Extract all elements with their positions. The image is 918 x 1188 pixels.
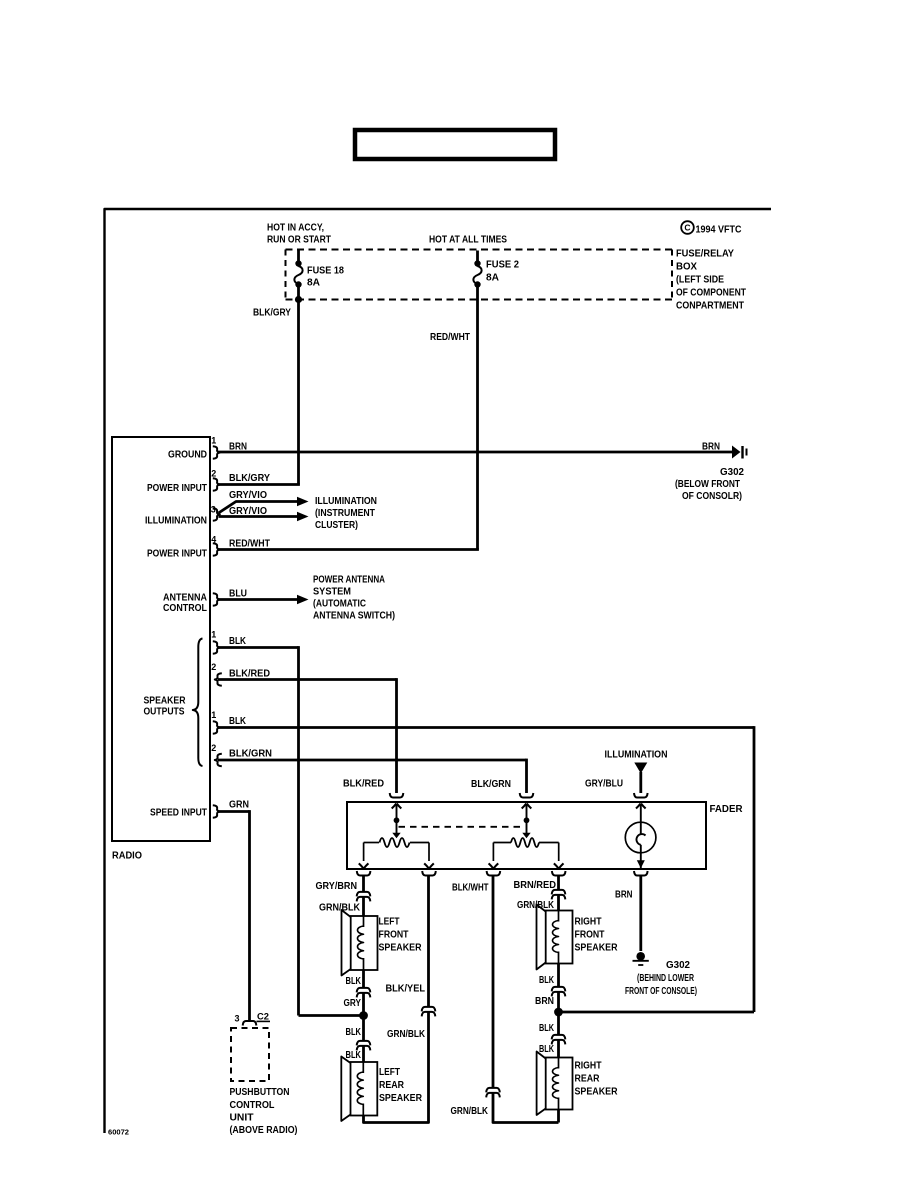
svg-text:FUSE/RELAY: FUSE/RELAY [676, 249, 734, 260]
svg-text:BLK/WHT: BLK/WHT [452, 883, 489, 894]
svg-text:2: 2 [211, 662, 216, 672]
svg-text:ILLUMINATION: ILLUMINATION [605, 750, 668, 761]
radio pin ANTENNA CONTROL with BLU arrow [213, 593, 220, 606]
svg-text:(INSTRUMENT: (INSTRUMENT [315, 508, 375, 519]
svg-text:UNIT: UNIT [230, 1113, 254, 1124]
wire BLK to left rear speaker [362, 1016, 365, 1063]
svg-text:G302: G302 [720, 467, 744, 478]
radio speaker pin 1 BLK [213, 641, 220, 654]
wire BLK below right front speaker [557, 964, 560, 1013]
svg-text:GRY/VIO: GRY/VIO [229, 490, 267, 501]
wire BLK to right rear speaker [557, 1012, 560, 1058]
svg-text:GRN/BLK: GRN/BLK [451, 1106, 489, 1117]
ground G302 below front of console [732, 446, 741, 459]
svg-text:ANTENNA: ANTENNA [163, 593, 207, 604]
svg-text:PUSHBUTTON: PUSHBUTTON [230, 1087, 290, 1098]
wire BLK radio to left-front junction [218, 646, 299, 649]
svg-text:G302: G302 [666, 960, 690, 971]
svg-text:BOX: BOX [676, 262, 697, 273]
inline connector BLK/WHT to GRN/BLK [491, 1088, 495, 1093]
right front speaker [546, 911, 573, 964]
fader input arrows [392, 804, 402, 809]
svg-text:C: C [684, 223, 690, 233]
svg-text:BRN: BRN [535, 996, 554, 1007]
svg-text:BLK: BLK [229, 636, 247, 647]
svg-text:REAR: REAR [379, 1080, 405, 1091]
fuse F2 8A [476, 251, 479, 263]
radio pin 1 GROUND [213, 446, 220, 459]
fader wiper dashed link [399, 826, 525, 828]
wire GRY/BRN fader to left front speaker [362, 876, 365, 917]
svg-text:(BEHIND LOWER: (BEHIND LOWER [637, 973, 695, 984]
svg-text:BLK: BLK [539, 1023, 555, 1034]
svg-text:RIGHT: RIGHT [575, 917, 602, 928]
junction fuse 18 output [297, 285, 300, 301]
wire BRN/RED fader to right front speaker [557, 876, 560, 911]
pushbutton unit connector pin 3 C2 [243, 1021, 257, 1026]
svg-text:1: 1 [211, 630, 216, 640]
svg-text:RIGHT: RIGHT [575, 1061, 602, 1072]
svg-text:LEFT: LEFT [379, 917, 400, 928]
svg-text:LEFT: LEFT [379, 1067, 400, 1078]
svg-text:ANTENNA SWITCH): ANTENNA SWITCH) [313, 611, 395, 622]
svg-text:BLU: BLU [229, 589, 247, 600]
svg-text:OUTPUTS: OUTPUTS [144, 707, 185, 718]
copyright symbol 1994 VFTC [681, 221, 694, 234]
svg-text:(BELOW FRONT: (BELOW FRONT [675, 479, 740, 490]
fader potentiometer right [526, 804, 528, 835]
svg-text:4: 4 [211, 535, 216, 545]
svg-text:POWER ANTENNA: POWER ANTENNA [313, 575, 385, 586]
fader output connector caps below box [357, 871, 371, 876]
svg-text:GRY/BLU: GRY/BLU [585, 779, 623, 790]
svg-text:CONTROL: CONTROL [163, 603, 207, 614]
svg-text:BLK: BLK [229, 716, 247, 727]
svg-text:SPEAKER: SPEAKER [379, 943, 423, 954]
fader illumination lamp [625, 822, 656, 853]
svg-text:1994 VFTC: 1994 VFTC [696, 225, 742, 236]
svg-text:GRN/BLK: GRN/BLK [387, 1029, 426, 1040]
inline connector GRY/BRN to GRN/BLK [361, 892, 365, 897]
radio speaker pin 2 BLK/RED [215, 673, 222, 686]
radio pin 3 ILLUMINATION with GRY/VIO arrows [213, 508, 220, 521]
svg-text:BLK: BLK [346, 976, 362, 987]
svg-text:FRONT OF CONSOLE): FRONT OF CONSOLE) [625, 986, 697, 997]
wire BRN fader lamp to ground G302 [639, 876, 642, 952]
svg-text:OF COMPONENT: OF COMPONENT [676, 288, 746, 299]
fader box [347, 802, 706, 869]
fader potentiometer left (balance) [396, 804, 398, 835]
svg-text:BLK/GRN: BLK/GRN [471, 779, 511, 790]
svg-text:(LEFT SIDE: (LEFT SIDE [676, 275, 724, 286]
svg-text:BLK/GRY: BLK/GRY [229, 473, 270, 484]
svg-text:RUN OR START: RUN OR START [267, 235, 331, 246]
wire BLK/WHT fader to right rear speaker [493, 876, 559, 1123]
wire left rear speaker bottom to GRN/BLK riser [364, 876, 429, 1123]
svg-text:(ABOVE RADIO): (ABOVE RADIO) [230, 1125, 298, 1136]
inline connector BLK to BLK [361, 1041, 365, 1046]
fader connector caps at box top [390, 793, 404, 798]
svg-text:HOT AT ALL TIMES: HOT AT ALL TIMES [429, 235, 507, 246]
ground G302 behind lower front of console [636, 952, 645, 961]
svg-text:BRN: BRN [615, 890, 633, 901]
junction right speakers [554, 1008, 563, 1017]
svg-text:BLK: BLK [539, 975, 555, 986]
svg-text:2: 2 [211, 469, 216, 479]
svg-text:GRN: GRN [229, 800, 249, 811]
wire GRN radio to pushbutton unit [218, 810, 250, 813]
title box (empty) [355, 130, 555, 159]
wire BLK below left front speaker [362, 970, 365, 1016]
right rear speaker [546, 1058, 573, 1110]
svg-text:SPEAKER: SPEAKER [379, 1093, 423, 1104]
wire BRN radio pin 1 to ground G302 [218, 451, 732, 454]
svg-text:POWER INPUT: POWER INPUT [147, 483, 207, 494]
svg-text:BRN: BRN [702, 442, 720, 453]
svg-text:POWER INPUT: POWER INPUT [147, 549, 207, 560]
svg-text:BLK: BLK [346, 1050, 362, 1061]
wire right rear speaker bottom [557, 1110, 560, 1123]
wire BLK/GRY fuse 18 to radio pin 2 [297, 300, 300, 485]
svg-text:SPEAKER: SPEAKER [575, 1087, 619, 1098]
svg-text:GRY/VIO: GRY/VIO [229, 506, 267, 517]
svg-text:BLK/GRN: BLK/GRN [229, 749, 272, 760]
svg-text:(AUTOMATIC: (AUTOMATIC [313, 599, 366, 610]
svg-text:ILLUMINATION: ILLUMINATION [315, 496, 377, 507]
svg-text:CLUSTER): CLUSTER) [315, 520, 358, 531]
svg-text:8A: 8A [486, 273, 499, 284]
wire BLK radio to right-front junction [218, 726, 754, 729]
svg-text:3: 3 [211, 505, 216, 515]
inline connector BLK to GRY [361, 988, 365, 993]
svg-text:GRY: GRY [344, 998, 362, 1009]
svg-text:BLK/GRY: BLK/GRY [253, 308, 291, 319]
svg-text:2: 2 [211, 743, 216, 753]
svg-text:CONTROL: CONTROL [230, 1100, 275, 1111]
svg-text:FUSE 18: FUSE 18 [307, 266, 344, 277]
page border frame [105, 209, 772, 1133]
svg-text:FRONT: FRONT [379, 930, 409, 941]
svg-text:1: 1 [211, 710, 216, 720]
left rear speaker [351, 1062, 378, 1116]
svg-text:HOT IN ACCY,: HOT IN ACCY, [267, 223, 324, 234]
svg-text:SPEED INPUT: SPEED INPUT [150, 808, 207, 819]
svg-text:SPEAKER: SPEAKER [144, 696, 187, 707]
illumination feed triangle [634, 763, 647, 774]
wire GRY/BLU to fader [639, 772, 642, 793]
svg-text:GROUND: GROUND [168, 450, 207, 461]
svg-text:3: 3 [235, 1014, 240, 1024]
svg-text:RED/WHT: RED/WHT [229, 539, 270, 550]
svg-text:SPEAKER: SPEAKER [575, 943, 619, 954]
svg-text:BLK/RED: BLK/RED [229, 669, 270, 680]
radio speaker pin 1b BLK [213, 721, 220, 734]
svg-text:BLK/RED: BLK/RED [343, 779, 384, 790]
wire BLK/GRN radio to fader [218, 759, 527, 762]
svg-text:1: 1 [211, 436, 216, 446]
svg-text:OF CONSOLR): OF CONSOLR) [682, 491, 742, 502]
inline connector BRN/RED to GRN/BLK [556, 890, 560, 895]
svg-text:RADIO: RADIO [112, 851, 142, 862]
svg-text:BLK: BLK [346, 1027, 362, 1038]
inline connector BLK to BRN [556, 987, 560, 992]
fuse F18 8A [297, 251, 300, 263]
svg-text:BLK: BLK [539, 1044, 555, 1055]
svg-text:ILLUMINATION: ILLUMINATION [145, 516, 207, 527]
fuse/relay box (dashed) [286, 249, 673, 251]
inline connector BLK to BLK b [556, 1035, 560, 1040]
radio pin 2 POWER INPUT [213, 478, 220, 491]
radio speaker pin 2b BLK/GRN [215, 754, 222, 767]
inline connector BLK/YEL to GRN/BLK [426, 1007, 430, 1012]
radio U1 box [112, 437, 210, 841]
svg-text:C2: C2 [257, 1012, 269, 1022]
svg-text:FADER: FADER [710, 804, 744, 815]
left front speaker [351, 916, 378, 970]
pushbutton control unit box (dashed) [231, 1028, 269, 1081]
svg-text:BLK/YEL: BLK/YEL [386, 984, 426, 995]
wire RED/WHT fuse 2 to radio pin 4 [476, 285, 479, 550]
svg-text:FUSE 2: FUSE 2 [486, 260, 519, 271]
svg-text:GRN/BLK: GRN/BLK [319, 903, 361, 914]
svg-text:8A: 8A [307, 278, 320, 289]
svg-text:GRY/BRN: GRY/BRN [316, 881, 358, 892]
wire BLK/RED radio to fader [218, 678, 397, 681]
svg-text:60072: 60072 [108, 1130, 129, 1137]
svg-text:SYSTEM: SYSTEM [313, 587, 351, 598]
svg-text:RED/WHT: RED/WHT [430, 332, 470, 343]
radio pin 4 POWER INPUT [213, 543, 220, 556]
svg-text:BRN/RED: BRN/RED [514, 880, 557, 891]
svg-text:BRN: BRN [229, 442, 247, 453]
svg-text:REAR: REAR [575, 1074, 601, 1085]
svg-text:FRONT: FRONT [575, 930, 605, 941]
junction left speakers [359, 1011, 368, 1020]
speaker outputs brace [193, 639, 203, 767]
radio pin SPEED INPUT [213, 805, 220, 818]
svg-text:CONPARTMENT: CONPARTMENT [676, 301, 744, 312]
